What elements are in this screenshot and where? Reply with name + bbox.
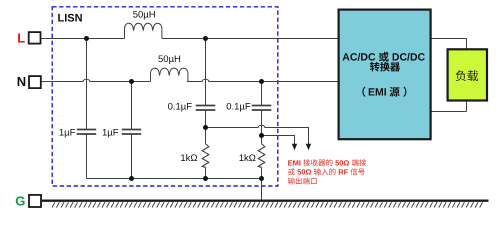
- svg-text:1kΩ: 1kΩ: [239, 153, 256, 164]
- svg-text:50Ω: 50Ω: [297, 168, 311, 177]
- svg-text:DC/DC: DC/DC: [392, 52, 426, 64]
- svg-text:N: N: [17, 74, 26, 89]
- svg-text:EMI: EMI: [368, 87, 387, 99]
- svg-text:0.1µF: 0.1µF: [168, 102, 193, 113]
- svg-text:0.1µF: 0.1µF: [226, 102, 251, 113]
- svg-text:50µH: 50µH: [158, 54, 181, 65]
- svg-text:L: L: [17, 30, 25, 45]
- svg-text:AC/DC: AC/DC: [342, 52, 376, 64]
- svg-text:1µF: 1µF: [59, 128, 76, 139]
- svg-text:1kΩ: 1kΩ: [180, 153, 197, 164]
- svg-text:G: G: [15, 193, 25, 208]
- svg-text:1µF: 1µF: [102, 128, 119, 139]
- svg-text:LISN: LISN: [58, 12, 83, 24]
- svg-text:EMI: EMI: [288, 158, 301, 167]
- svg-text:RF: RF: [338, 168, 348, 177]
- svg-text:50µH: 50µH: [133, 10, 156, 21]
- svg-text:50Ω: 50Ω: [335, 158, 349, 167]
